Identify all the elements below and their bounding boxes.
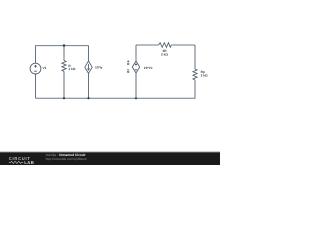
sense terminal plus (127, 60, 129, 65)
svg-text:2 kΩ: 2 kΩ (161, 53, 168, 57)
dependent voltage source V2 (10*Vx) (132, 45, 139, 98)
logo resistor zigzag (9, 161, 23, 163)
CircuitLab logo wordmark (9, 156, 34, 165)
svg-text:LAB: LAB (24, 160, 34, 165)
sense terminal minus (127, 70, 129, 73)
svg-text:http://circuitlab.com/c/jd8awb: http://circuitlab.com/c/jd8awb (46, 157, 87, 161)
junction node I1 bottom (87, 97, 89, 99)
junction node at R top (63, 44, 66, 47)
bottom wire net (common rail) (36, 97, 196, 99)
resistor 2R (2 kOhm) (159, 43, 172, 48)
svg-text:10*Vx: 10*Vx (144, 66, 153, 70)
dependent current source I1 (10*Iy) (85, 46, 92, 99)
svg-text:10*Iy: 10*Iy (95, 65, 103, 69)
wire top-left net (V1 top to I1 top) (36, 45, 89, 47)
resistor Rp (2 kOhm) (193, 45, 197, 98)
junction node V2 bottom (135, 97, 137, 99)
junction node R bottom (63, 97, 65, 99)
svg-text:1 kΩ: 1 kΩ (68, 67, 75, 71)
svg-text:V1: V1 (43, 66, 47, 70)
svg-text:2 kΩ: 2 kΩ (201, 73, 208, 77)
voltage source V1 (30, 46, 41, 99)
wire 2R to Rp top (171, 44, 195, 46)
wire top-right net (V2 top to 2R) (136, 44, 159, 46)
resistor R (1 kOhm) (62, 46, 66, 99)
footer bar (0, 152, 220, 165)
